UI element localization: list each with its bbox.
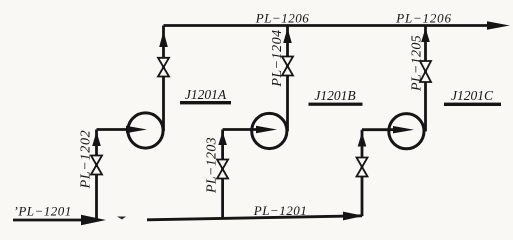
pump J1201B circle bbox=[252, 113, 287, 148]
wire discharge riser pump J1201C bbox=[424, 26, 427, 132]
wire suction riser 3 bbox=[361, 130, 364, 216]
arrowhead into pump 3 bbox=[393, 126, 414, 133]
svg-text:PL−1204: PL−1204 bbox=[270, 29, 285, 87]
svg-text:PL−1206: PL−1206 bbox=[255, 11, 309, 26]
pump J1201C circle bbox=[389, 114, 424, 149]
arrowhead into pump 1 bbox=[126, 126, 147, 133]
flow arrow up, suction riser 1 bbox=[92, 132, 101, 147]
svg-text:’PL−1201: ’PL−1201 bbox=[14, 204, 72, 219]
arrowhead into suction riser 3 corner bbox=[343, 212, 364, 221]
wire PL-1201 inlet line bbox=[13, 219, 86, 222]
underline J1201A bbox=[180, 101, 231, 104]
arrowhead PL-1206 outlet bbox=[487, 21, 510, 29]
arrowhead PL-1201 inlet bbox=[81, 215, 106, 226]
flow arrow up, riser 1 bbox=[159, 31, 168, 47]
speck after junction bbox=[117, 217, 126, 220]
svg-text:J1201A: J1201A bbox=[185, 87, 227, 102]
valve on discharge riser 1 bbox=[158, 58, 169, 77]
svg-text:J1201B: J1201B bbox=[314, 88, 355, 103]
pump J1201A circle bbox=[128, 113, 163, 148]
flow arrow up, riser 3 bbox=[421, 28, 430, 42]
svg-text:PL−1201: PL−1201 bbox=[253, 203, 307, 218]
svg-text:PL−1205: PL−1205 bbox=[410, 35, 425, 92]
valve PL-1203 suction riser 2 bbox=[217, 160, 228, 179]
wire suction into pump 1 bbox=[97, 128, 131, 131]
arrowhead into pump 2 bbox=[256, 126, 277, 133]
valve PL-1202 suction riser 1 bbox=[91, 156, 102, 175]
underline J1201C bbox=[444, 103, 501, 106]
valve on discharge riser 2 PL-1204 bbox=[282, 57, 293, 76]
wire PL-1206 top header bbox=[164, 24, 493, 27]
wire PL-1201 bottom header bbox=[147, 216, 362, 220]
wire suction riser 2 bbox=[221, 130, 224, 220]
wire discharge riser pump J1201A bbox=[162, 26, 165, 132]
valve on suction riser 3 bbox=[357, 158, 368, 177]
flow arrow up, riser 2 bbox=[283, 28, 292, 43]
wire suction riser 1 bbox=[95, 130, 98, 221]
wire suction into pump 3 bbox=[362, 128, 396, 131]
wire discharge riser pump J1201B bbox=[286, 26, 289, 132]
underline J1201B bbox=[309, 103, 363, 106]
svg-text:J1201C: J1201C bbox=[451, 88, 494, 103]
svg-text:PL−1206: PL−1206 bbox=[395, 11, 452, 26]
flow arrow up, suction riser 2 bbox=[218, 132, 227, 146]
flow arrow up, suction riser 3 bbox=[358, 132, 367, 147]
wire suction into pump 2 bbox=[223, 128, 260, 131]
svg-text:PL−1203: PL−1203 bbox=[205, 137, 220, 194]
valve on discharge riser 3 PL-1205 bbox=[420, 61, 431, 82]
svg-text:PL−1202: PL−1202 bbox=[79, 130, 94, 190]
